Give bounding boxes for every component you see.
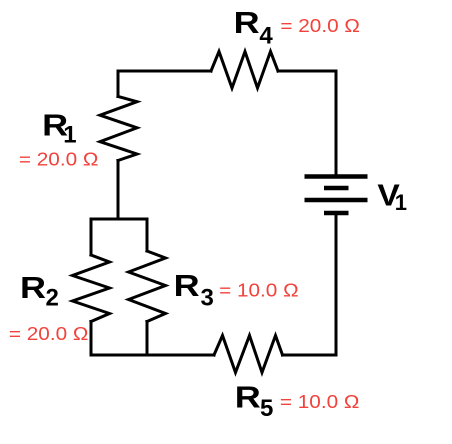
svg-text:2: 2 — [46, 285, 59, 312]
wire R3 bottom lead — [146, 322, 149, 356]
wire R3 top lead — [146, 219, 149, 251]
svg-text:3: 3 — [201, 284, 214, 311]
wire bottom-left horizontal — [91, 354, 214, 357]
resistor R2 — [73, 255, 110, 322]
wire top-left horizontal — [118, 70, 211, 73]
wire top-right horizontal — [278, 70, 336, 73]
svg-text:1: 1 — [63, 121, 76, 148]
svg-text:= 10.0 Ω: = 10.0 Ω — [219, 281, 299, 301]
svg-text:R: R — [174, 268, 200, 303]
svg-text:5: 5 — [260, 395, 273, 422]
wire R2 top lead — [90, 219, 93, 255]
wire left upper vertical — [117, 71, 120, 97]
svg-text:R: R — [235, 380, 261, 415]
wire R2 bottom lead — [90, 322, 93, 356]
battery V1 — [305, 177, 368, 214]
svg-text:= 20.0 Ω: = 20.0 Ω — [19, 150, 99, 170]
resistor R5 — [214, 336, 283, 373]
wire bottom-right horizontal — [283, 354, 337, 357]
svg-text:= 20.0 Ω: = 20.0 Ω — [280, 16, 360, 36]
wire R1 to parallel junction — [117, 161, 120, 220]
svg-text:= 10.0 Ω: = 10.0 Ω — [280, 392, 360, 412]
resistor R3 — [129, 251, 166, 322]
wire right upper vertical — [335, 71, 338, 176]
svg-text:4: 4 — [259, 23, 273, 50]
svg-text:R: R — [20, 270, 46, 305]
resistor R1 — [100, 97, 137, 161]
svg-text:1: 1 — [395, 190, 407, 215]
svg-text:R: R — [234, 5, 260, 40]
wire right lower vertical — [335, 214, 338, 355]
resistor R4 — [211, 52, 278, 89]
svg-text:= 20.0 Ω: = 20.0 Ω — [9, 324, 89, 344]
wire parallel-top junction — [91, 218, 147, 221]
